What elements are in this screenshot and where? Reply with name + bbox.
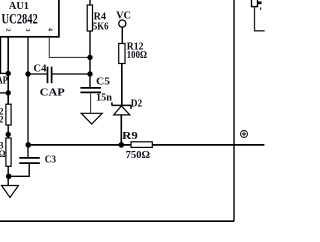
resistor R2 (left, labels cut) (0, 104, 11, 125)
svg-text:C4: C4 (33, 63, 46, 74)
wire R12 bottom to D2 (121, 64, 123, 106)
svg-text:C3: C3 (45, 154, 56, 165)
svg-text:C5: C5 (96, 77, 110, 88)
diode D2 (zener) (112, 98, 143, 115)
wire between R2 and R3 (7, 125, 9, 138)
wire C4 left lead (28, 73, 48, 75)
resistor R9 (122, 131, 152, 161)
node junction dot between R2 and R3 (6, 132, 11, 137)
svg-text:R9: R9 (122, 131, 138, 142)
svg-text:CAP: CAP (40, 88, 65, 99)
wire pin4 down then right (49, 37, 90, 58)
node junction dot pin2/stub lower (6, 90, 11, 95)
svg-text:15n: 15n (96, 93, 112, 104)
svg-text:AU1: AU1 (9, 1, 29, 12)
node junction dot C4/R4 rail (87, 71, 92, 76)
svg-text:100Ω: 100Ω (127, 50, 147, 61)
svg-text:D2: D2 (131, 98, 142, 109)
resistor R8 (top right, cut off) (252, 0, 262, 10)
ground (bottom left) (2, 186, 19, 198)
resistor R12 (119, 41, 147, 63)
capacitor C4 (33, 63, 64, 98)
wire pin3 vertical down to C3 (27, 37, 29, 157)
node junction dot D2/R9 (119, 142, 125, 148)
wire top-right resistor down then right (255, 7, 265, 31)
ground (under C5) (81, 113, 102, 124)
wire D2 to main node (120, 115, 122, 145)
node junction dot pin2/stub upper (6, 71, 11, 76)
svg-text:CAP: CAP (0, 76, 8, 87)
capacitor C5 (80, 77, 112, 104)
wire pin1 stub down from IC at left edge (0, 37, 2, 74)
svg-text:5K6: 5K6 (93, 22, 109, 33)
svg-text:750Ω: 750Ω (126, 149, 151, 161)
wire left stub at node lower (0, 92, 8, 94)
wire bottom horizontal rail (0, 220, 234, 222)
wire R3 bottom to ground (7, 166, 9, 185)
wire C5 bottom to ground (90, 93, 92, 113)
wire R4 bottom rail down to C5 (89, 31, 91, 87)
svg-text:Ω: Ω (0, 149, 6, 159)
wire left stub at node upper (0, 72, 8, 74)
svg-text:UC2842: UC2842 (2, 11, 38, 27)
node junction dot C4 left (25, 71, 30, 76)
capacitor C3 (19, 154, 56, 165)
wire C4 right lead (52, 73, 90, 75)
svg-text:2: 2 (5, 28, 12, 31)
svg-text:2: 2 (0, 115, 4, 125)
resistor R4 (87, 0, 108, 33)
wire right vertical rail (233, 0, 235, 221)
resistor R3 (left, labels cut) (0, 138, 11, 166)
wire main horizontal right of R9 (152, 144, 264, 146)
node circled-plus terminal (241, 131, 248, 138)
wire main horizontal left of R9 (28, 144, 131, 146)
node junction dot pin4/R4 rail (87, 55, 92, 60)
wire VC to R12 (121, 27, 123, 43)
op-amp U1 (IC AU1 UC2842 box) (0, 0, 59, 37)
wire pin2 vertical from IC down to R2 (7, 37, 9, 104)
node junction dot main line left (26, 142, 32, 148)
node junction dot R3/C3 bottom (6, 174, 12, 180)
wire C3 bottom to R3 bottom node (9, 164, 30, 177)
node VC terminal (116, 11, 131, 28)
